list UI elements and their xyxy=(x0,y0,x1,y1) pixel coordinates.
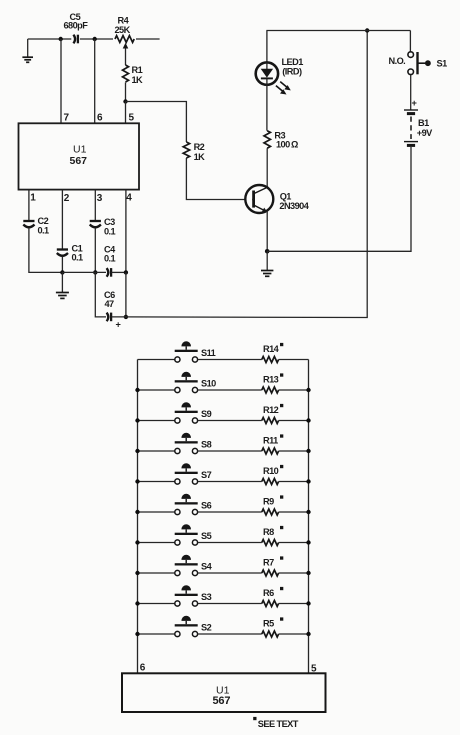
wire row S2 middle xyxy=(198,633,262,635)
resistor R6 xyxy=(262,587,284,607)
left bus xyxy=(137,360,139,674)
resistor R7 xyxy=(262,556,284,576)
svg-text:SEE TEXT: SEE TEXT xyxy=(258,719,299,729)
node right bus S5 xyxy=(306,540,310,544)
wire row S4 right xyxy=(279,572,309,574)
svg-text:(IRD): (IRD) xyxy=(282,67,302,77)
svg-text:S1: S1 xyxy=(437,58,448,68)
wire C2 to bus xyxy=(29,228,63,272)
wire pin4 down xyxy=(125,190,127,273)
svg-text:5: 5 xyxy=(129,113,135,124)
pin label 5 xyxy=(129,113,135,124)
wire row S10 right xyxy=(279,389,309,391)
svg-text:S9: S9 xyxy=(201,409,212,419)
capacitor C4 0.1 xyxy=(104,245,116,277)
wire row S8 right xyxy=(279,450,309,452)
svg-text:B1: B1 xyxy=(418,118,429,128)
svg-text:S10: S10 xyxy=(201,379,216,389)
right bus xyxy=(308,360,310,674)
node: bus-pin3 junction xyxy=(93,270,97,274)
node left bus S6 xyxy=(135,510,139,514)
node: C6-pin4 junction xyxy=(124,315,128,319)
switch S2 xyxy=(175,616,212,637)
svg-text:R10: R10 xyxy=(263,466,279,476)
wire row S5 right xyxy=(279,542,309,544)
ground (under Q1) xyxy=(261,251,273,276)
svg-text:0.1: 0.1 xyxy=(104,254,116,264)
svg-text:C2: C2 xyxy=(38,216,49,226)
svg-text:7: 7 xyxy=(64,113,70,124)
pin label 2 xyxy=(64,193,70,204)
svg-text:S8: S8 xyxy=(201,440,212,450)
wire top-left horizontal xyxy=(28,38,160,40)
node left bus S5 xyxy=(135,540,139,544)
svg-text:2N3904: 2N3904 xyxy=(279,201,309,211)
node right bus S3 xyxy=(306,601,310,605)
IC U1 567 (bottom) xyxy=(122,673,326,712)
pin label 6 xyxy=(97,113,103,124)
wire row S8 left xyxy=(138,450,175,452)
switch S6 xyxy=(175,494,212,515)
svg-text:R6: R6 xyxy=(263,588,274,598)
svg-text:R12: R12 xyxy=(263,405,279,415)
svg-text:C3: C3 xyxy=(104,217,115,227)
node right bus S9 xyxy=(306,418,310,422)
svg-text:1K: 1K xyxy=(132,75,144,85)
wire row S4 middle xyxy=(198,572,262,574)
switch S11 xyxy=(175,341,216,362)
pin label 1 xyxy=(30,193,36,204)
wire row S6 left xyxy=(138,511,175,513)
wire row S2 left xyxy=(138,633,175,635)
node: bus-C1 junction xyxy=(60,270,64,274)
capacitor C6 47 xyxy=(104,290,121,330)
node left bus S3 xyxy=(135,601,139,605)
wire row S11 left xyxy=(138,359,175,361)
wire pin1 down xyxy=(28,190,30,220)
wire LED branch down xyxy=(266,31,268,63)
capacitor C3 0.1 xyxy=(90,217,116,237)
potentiometer R4 25K xyxy=(113,16,136,66)
resistor R13 xyxy=(262,373,284,393)
svg-text:U1: U1 xyxy=(73,143,87,155)
wire bus pin3 to C4 xyxy=(62,271,106,273)
node left bus S7 xyxy=(135,479,139,483)
svg-text:S7: S7 xyxy=(201,470,212,480)
pin label 4 xyxy=(126,193,132,204)
node left bus S9 xyxy=(135,418,139,422)
svg-text:5: 5 xyxy=(311,664,317,675)
wire R1 bottom to node xyxy=(125,82,127,101)
switch S7 xyxy=(175,463,212,484)
svg-text:N.O.: N.O. xyxy=(389,56,406,66)
wire row S7 middle xyxy=(198,481,262,483)
LED1 (IRD) xyxy=(256,57,304,85)
wire row S3 left xyxy=(138,603,175,605)
resistor R1 1K xyxy=(123,65,144,85)
resistor R10 xyxy=(262,465,284,485)
wire row S8 middle xyxy=(198,450,262,452)
svg-text:+: + xyxy=(412,98,417,108)
switch S4 xyxy=(175,555,213,576)
node right bus S7 xyxy=(306,479,310,483)
switch S9 xyxy=(175,402,212,423)
wire row S7 left xyxy=(138,481,175,483)
wire R2 to Q1 base xyxy=(186,158,252,200)
ground (under C1) xyxy=(56,272,69,298)
wire row S10 middle xyxy=(198,389,262,391)
svg-text:567: 567 xyxy=(213,695,231,707)
svg-text:R9: R9 xyxy=(263,496,274,506)
resistor R8 xyxy=(262,526,284,546)
wire row S3 right xyxy=(279,603,309,605)
svg-text:R1: R1 xyxy=(132,65,143,75)
svg-text:S11: S11 xyxy=(201,348,216,358)
note SEE TEXT xyxy=(253,717,299,729)
svg-text:R5: R5 xyxy=(263,618,274,628)
resistor R14 xyxy=(262,343,284,363)
svg-text:1: 1 xyxy=(30,193,36,204)
node right bus S10 xyxy=(306,388,310,392)
pin label 5 (bottom IC) xyxy=(311,664,317,675)
ground (top-left) xyxy=(22,39,33,62)
svg-text:+9V: +9V xyxy=(417,128,433,138)
wire row S2 right xyxy=(279,633,309,635)
svg-text:+: + xyxy=(116,320,121,330)
switch S10 xyxy=(175,372,216,393)
node left bus S2 xyxy=(135,632,139,636)
wire row S6 right xyxy=(279,511,309,513)
resistor R11 xyxy=(262,434,284,454)
svg-text:0.1: 0.1 xyxy=(72,253,84,263)
svg-text:6: 6 xyxy=(97,113,103,124)
wire pin3 branch down to C6 xyxy=(95,272,106,317)
svg-text:680pF: 680pF xyxy=(64,21,89,31)
switch S1 N.O. xyxy=(389,31,448,75)
node: top wire junction xyxy=(365,28,369,32)
node right bus S4 xyxy=(306,571,310,575)
wire row S3 middle xyxy=(198,603,262,605)
svg-text:LED1: LED1 xyxy=(282,57,304,67)
wire C4 to pin4 xyxy=(112,271,126,273)
resistor R12 xyxy=(262,404,284,424)
node: bus-pin4 junction xyxy=(124,270,128,274)
wire row S4 left xyxy=(138,572,175,574)
wire pin7 vertical xyxy=(60,39,62,123)
svg-text:47: 47 xyxy=(105,299,115,309)
svg-text:R14: R14 xyxy=(263,344,280,354)
svg-text:0.1: 0.1 xyxy=(104,227,116,237)
battery B1 +9V xyxy=(404,98,433,145)
wire row S9 middle xyxy=(198,420,262,422)
pin label 6 (bottom IC) xyxy=(140,662,146,673)
node: C5 left junction xyxy=(59,37,63,41)
svg-text:R7: R7 xyxy=(263,557,274,567)
resistor R5 xyxy=(262,617,284,637)
capacitor C1 0.1 xyxy=(57,244,83,263)
wire R3 to Q1 xyxy=(266,148,268,188)
node right bus S6 xyxy=(306,510,310,514)
wire pin6 vertical xyxy=(94,39,96,123)
svg-text:100 Ω: 100 Ω xyxy=(276,140,298,150)
wire Q1 emitter down xyxy=(266,211,268,252)
svg-text:4: 4 xyxy=(126,193,132,204)
svg-text:0.1: 0.1 xyxy=(38,226,50,236)
LED emission arrows xyxy=(276,82,291,95)
node left bus S10 xyxy=(135,388,139,392)
wire C6 long feedback to top xyxy=(112,31,368,318)
resistor R9 xyxy=(262,495,284,515)
wire emitter to battery bottom xyxy=(267,147,411,251)
svg-text:S5: S5 xyxy=(201,531,212,541)
wire row S9 left xyxy=(138,420,175,422)
switch S8 xyxy=(175,433,212,454)
wire S1 to battery xyxy=(410,75,412,110)
wire row S7 right xyxy=(279,481,309,483)
switch S3 xyxy=(175,585,212,606)
resistor R2 1K xyxy=(183,142,205,162)
wire row S5 left xyxy=(138,542,175,544)
svg-text:S4: S4 xyxy=(201,562,213,572)
pin label 3 xyxy=(97,193,103,204)
wire row S11 middle xyxy=(198,359,262,361)
node: pin5 junction xyxy=(123,99,127,103)
node left bus S8 xyxy=(135,449,139,453)
wire pin4 to C6 row xyxy=(125,272,127,317)
node right bus S8 xyxy=(306,449,310,453)
svg-text:R2: R2 xyxy=(194,142,205,152)
wire pin5 vertical xyxy=(125,102,127,124)
svg-text:R13: R13 xyxy=(263,374,279,384)
svg-text:R8: R8 xyxy=(263,527,274,537)
svg-text:R4: R4 xyxy=(118,16,130,26)
svg-text:567: 567 xyxy=(70,155,88,167)
wire row S10 left xyxy=(138,389,175,391)
svg-text:S3: S3 xyxy=(201,592,212,602)
wire C3 to bus xyxy=(94,228,96,272)
pin label 7 xyxy=(64,113,70,124)
wire node to R2 xyxy=(126,102,187,143)
wire LED to R3 xyxy=(266,85,268,131)
node right bus S2 xyxy=(306,632,310,636)
wire row S11 right xyxy=(279,359,309,361)
capacitor C5 680pF xyxy=(64,12,89,45)
capacitor C2 0.1 xyxy=(23,216,49,236)
wire row S5 middle xyxy=(198,542,262,544)
switch S5 xyxy=(175,524,212,545)
svg-text:3: 3 xyxy=(97,193,103,204)
transistor Q1 2N3904 xyxy=(245,185,309,213)
wire row S9 right xyxy=(279,420,309,422)
node: emitter junction xyxy=(265,249,270,254)
svg-text:S2: S2 xyxy=(201,623,212,633)
resistor R3 100ohm xyxy=(264,131,298,150)
wire top-right horizontal xyxy=(266,30,410,32)
svg-text:6: 6 xyxy=(140,662,146,673)
wire row S6 middle xyxy=(198,511,262,513)
wire C1 to bus xyxy=(61,257,63,273)
svg-text:25K: 25K xyxy=(115,25,131,35)
wire pin3 down xyxy=(94,190,96,220)
svg-text:S6: S6 xyxy=(201,501,212,511)
IC U1 567 (top) xyxy=(19,123,140,189)
node left bus S4 xyxy=(135,571,139,575)
svg-text:R11: R11 xyxy=(263,435,278,445)
svg-text:2: 2 xyxy=(64,193,70,204)
node: C5 right junction xyxy=(93,37,97,41)
wire pin2 down xyxy=(61,190,63,249)
svg-text:1K: 1K xyxy=(194,152,206,162)
